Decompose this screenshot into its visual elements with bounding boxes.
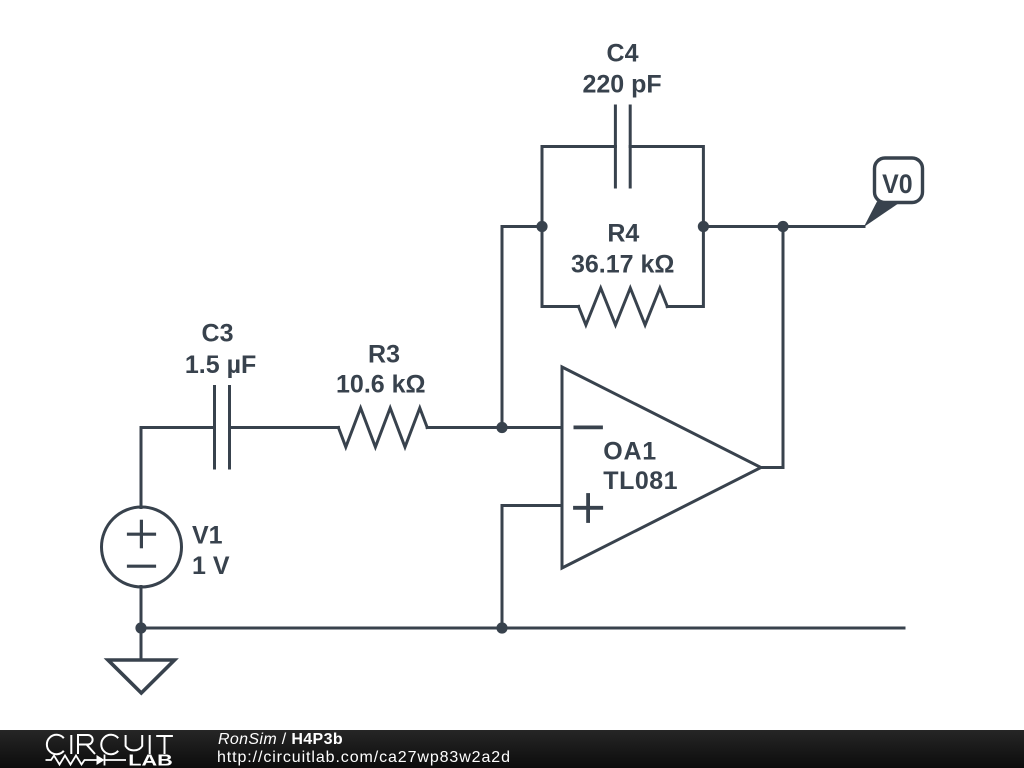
svg-text:C3: C3 xyxy=(202,320,234,348)
wire xyxy=(783,225,864,228)
node feedback left xyxy=(536,221,547,232)
node plus-rail xyxy=(496,622,507,633)
svg-text:1.5 µF: 1.5 µF xyxy=(185,351,256,379)
op-amp minus input symbol xyxy=(575,425,601,429)
svg-text:TL081: TL081 xyxy=(603,467,678,495)
node feedback right xyxy=(698,221,709,232)
voltage source V1 xyxy=(102,507,182,587)
wire xyxy=(427,426,562,429)
resistor R4 xyxy=(579,288,668,325)
capacitor C3 xyxy=(215,387,230,469)
node output xyxy=(777,221,788,232)
wire xyxy=(761,227,783,468)
svg-text:RonSim / H4P3b: RonSim / H4P3b xyxy=(218,731,343,748)
svg-text:10.6 kΩ: 10.6 kΩ xyxy=(336,371,426,399)
wire xyxy=(502,227,542,428)
svg-text:R4: R4 xyxy=(607,220,639,248)
wire xyxy=(542,305,579,308)
svg-text:OA1: OA1 xyxy=(603,438,657,466)
op-amp plus input symbol xyxy=(575,495,601,521)
wire xyxy=(630,147,703,307)
wire xyxy=(502,504,562,507)
wire xyxy=(141,428,215,508)
svg-text:36.17 kΩ: 36.17 kΩ xyxy=(571,250,674,278)
svg-text:V0: V0 xyxy=(882,169,913,199)
logo resistor-diode glyph xyxy=(46,755,127,766)
svg-text:http://circuitlab.com/ca27wp83: http://circuitlab.com/ca27wp83w2a2d xyxy=(217,749,511,766)
ground xyxy=(108,628,175,693)
flag V0 xyxy=(864,158,923,227)
svg-text:C4: C4 xyxy=(607,39,639,67)
node ground-V1 xyxy=(135,622,146,633)
wire xyxy=(141,627,904,630)
svg-text:1 V: 1 V xyxy=(192,552,230,580)
wire xyxy=(542,147,615,307)
op-amp OA1 xyxy=(562,367,761,568)
svg-text:R3: R3 xyxy=(368,341,400,369)
footer bar xyxy=(0,730,1024,768)
node junction dots xyxy=(135,221,788,634)
wire xyxy=(501,506,504,629)
capacitor C4 xyxy=(615,106,630,187)
wire xyxy=(230,426,339,429)
logo CIRCUIT (hand-drawn thin strokes) xyxy=(47,735,173,754)
svg-text:220 pF: 220 pF xyxy=(582,71,661,99)
wire xyxy=(703,225,783,228)
node A (inverting input junction) xyxy=(496,422,507,433)
wire xyxy=(140,587,143,629)
svg-text:LAB: LAB xyxy=(128,753,173,768)
resistor R3 xyxy=(338,408,427,447)
svg-text:V1: V1 xyxy=(192,522,223,550)
